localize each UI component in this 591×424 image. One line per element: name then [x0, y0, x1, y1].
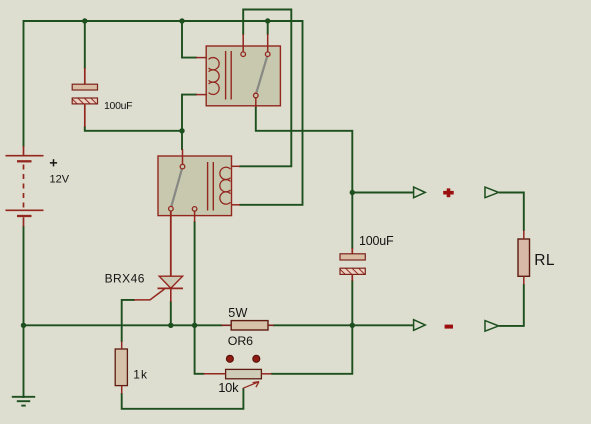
junction dot top rail at relay RL1 coil [179, 18, 184, 23]
svg-text:OR6: OR6 [228, 334, 253, 348]
junction dot top rail at C1 [82, 18, 87, 23]
resistor R1 1k body [115, 349, 127, 386]
battery BT1 12V [6, 146, 44, 227]
thyristor U1 cathode bar [158, 287, 184, 289]
relay RL2 pin circles [169, 164, 197, 211]
wire relay RL2 NO pin through bus to pot left pin [195, 221, 205, 374]
capacitor C1 100uF top plate and pin [84, 68, 86, 85]
battery plus sign [50, 159, 57, 166]
wire RL bottom lead [499, 284, 524, 326]
wire relay RL1 coil top pin [182, 21, 197, 58]
svg-text:10k: 10k [218, 380, 239, 395]
junction dot node A [179, 128, 184, 133]
junction dot top rail at relay RL1 common [265, 18, 270, 23]
label plus output [443, 188, 454, 197]
relay RL1 body [206, 46, 280, 106]
wire capacitor C1 top lead [84, 21, 86, 69]
terminal arrow minus left [414, 320, 426, 331]
wire +12V top rail with battery leg and right leg to relay RL2 coil [24, 21, 303, 205]
thyristor U1 triangle [159, 276, 182, 288]
wire capacitor C2 top lead [351, 193, 353, 250]
thyristor U1 gate lead [134, 289, 165, 300]
wire plus output line [352, 192, 414, 194]
relay RL1 switch pin stubs [242, 34, 244, 52]
junction dot bus at battery [21, 323, 26, 328]
terminal arrow plus right [485, 187, 499, 198]
potentiometer RV1 wiper arrow [243, 382, 259, 389]
junction dot bus at pot riser [192, 323, 197, 328]
wire thyristor gate to resistor R1 [122, 300, 135, 342]
wire relay RL1 switch bottom pin to plus node [256, 107, 352, 193]
resistor R2 5W OR6 body [231, 321, 268, 330]
wire pot right pin up to bus [271, 325, 352, 374]
relay RL2 switch pin stubs [182, 149, 184, 164]
wire RL top lead [499, 193, 524, 232]
resistor R1 pin stubs [121, 342, 123, 350]
resistor R2 pin stubs [222, 324, 232, 326]
wire relay RL2 common pin riser from node A [181, 131, 183, 150]
relay RL2 coil [220, 167, 231, 204]
thyristor U1 BRX46 anode lead from relay RL2 pin [170, 211, 172, 276]
ground [12, 397, 35, 406]
potentiometer RV1 pin stubs [204, 373, 226, 375]
svg-text:100uF: 100uF [359, 234, 394, 248]
wire ground bus right section to minus terminal [273, 324, 414, 326]
junction dot plus node [350, 190, 355, 195]
relay RL2 core lines [207, 162, 209, 211]
capacitor C2 100uF top pin and plate [351, 248, 353, 254]
wire relay RL1 coil bottom pin to node A [182, 95, 197, 131]
resistor RL body [518, 239, 530, 276]
svg-text:BRX46: BRX46 [105, 272, 145, 286]
terminal arrow minus right [485, 321, 499, 332]
relay RL1 coil pin stubs [196, 57, 207, 59]
svg-text:RL: RL [534, 252, 555, 269]
terminal arrow plus left [414, 187, 426, 198]
wire relay RL1 common pin riser [267, 21, 269, 35]
relay RL2 coil pin stubs [232, 165, 240, 167]
potentiometer RV1 end dots [226, 355, 233, 362]
wire thyristor cathode to bus [170, 301, 172, 325]
svg-text:100uF: 100uF [104, 100, 132, 112]
wire resistor R1 bottom to pot wiper [122, 388, 244, 409]
svg-text:5W: 5W [228, 306, 248, 320]
relay RL2 armature [171, 169, 182, 206]
svg-text:12V: 12V [50, 174, 70, 186]
svg-text:1k: 1k [133, 368, 148, 382]
wire net from relay RL1 NC pin over the top to relay RL2 coil top pin [239, 10, 291, 167]
relay RL1 coil [209, 58, 220, 95]
wire capacitor C1 bottom lead to node A [85, 126, 182, 131]
junction dot bus at C2 [350, 323, 355, 328]
relay RL2 body [158, 156, 232, 216]
junction dot bus at thyristor cathode [168, 323, 173, 328]
wire ground bus left section [24, 324, 223, 326]
potentiometer RV1 10k body [226, 369, 262, 378]
resistor RL pin stubs [523, 231, 525, 240]
capacitor C2 bottom plate (hatched) and pin [340, 268, 365, 274]
relay RL1 core lines [225, 51, 227, 100]
wire capacitor C2 bottom lead [351, 280, 353, 325]
relay RL1 pin circles [241, 52, 270, 98]
label minus output [445, 325, 453, 329]
relay RL1 armature [256, 56, 267, 93]
capacitor C1 bottom plate (hatched) and pin [72, 98, 97, 104]
wire battery negative to ground [23, 226, 25, 398]
thyristor U1 cathode lead [170, 288, 172, 302]
